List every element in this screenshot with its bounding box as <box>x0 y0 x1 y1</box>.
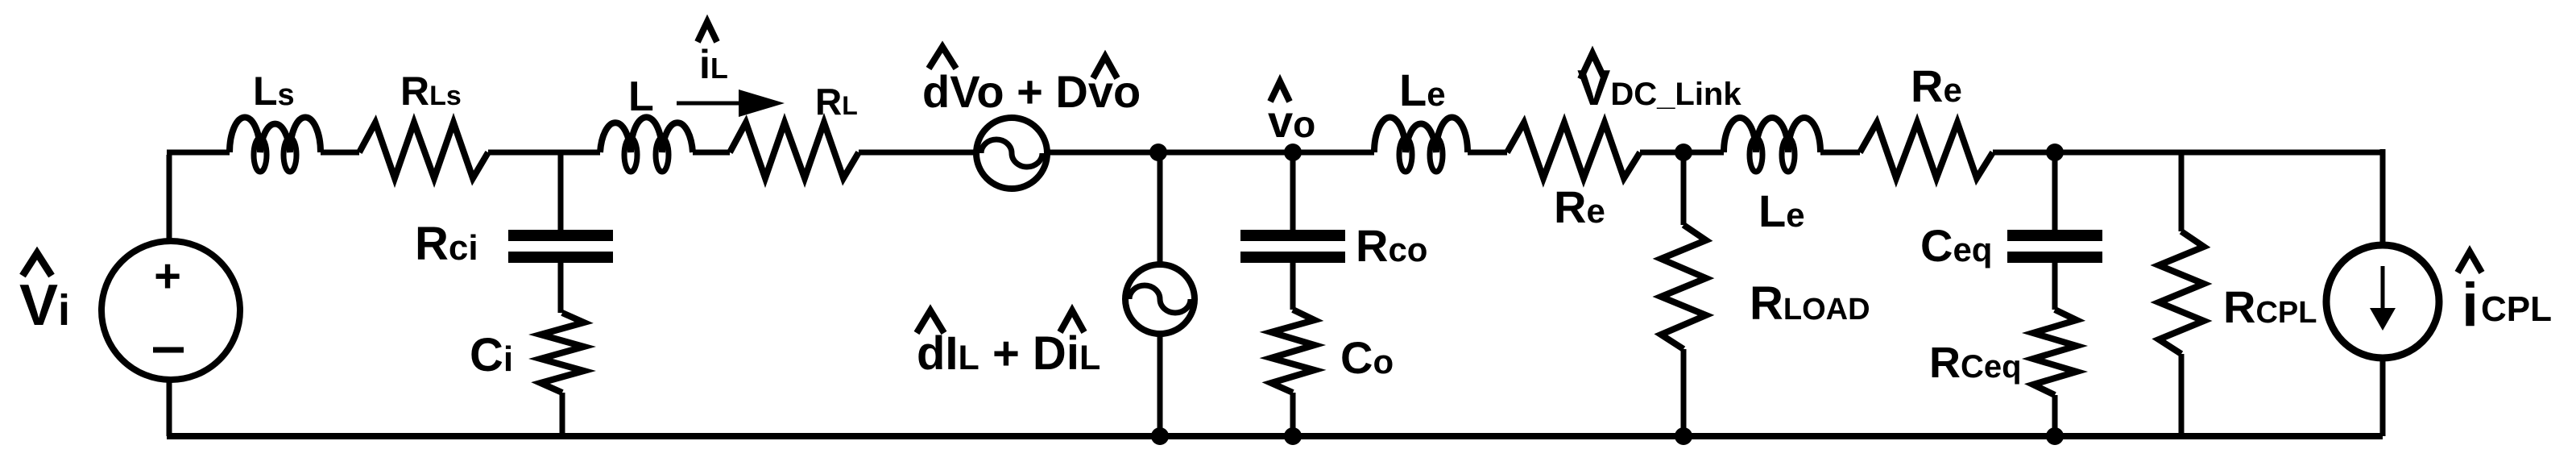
wire RLOAD branch upper <box>1681 152 1687 225</box>
wire top rail seg2 <box>321 150 359 156</box>
label vhat_o <box>1268 81 1315 147</box>
label Vhat_DC_Link <box>1577 53 1741 116</box>
inductor Ls <box>230 118 321 172</box>
wire top rail seg8 <box>1468 150 1507 156</box>
label Re second <box>1911 60 1962 111</box>
wire Rci to Ci <box>558 261 564 313</box>
capacitor Ceq <box>2007 235 2102 257</box>
wire top rail seg4 <box>693 150 730 156</box>
label Ci <box>470 329 513 381</box>
wire top rail seg9 <box>1640 150 1724 156</box>
label L <box>628 73 654 120</box>
label Co <box>1340 332 1394 383</box>
svg-text:CPL: CPL <box>2481 289 2552 329</box>
wire RCPL branch lower <box>2179 354 2185 436</box>
wire Rci branch upper <box>558 152 564 234</box>
label Re first <box>1554 181 1605 232</box>
wire top rail seg5 <box>859 150 977 156</box>
wire Ceq branch upper <box>2052 152 2058 234</box>
resistor Co symbol <box>1271 310 1315 393</box>
label RLOAD <box>1750 277 1870 330</box>
current source ihat_CPL <box>2326 245 2439 358</box>
resistor Re first <box>1507 123 1640 178</box>
wire Rceq branch lower <box>2052 395 2058 436</box>
label ihat_CPL <box>2458 252 2552 339</box>
wire RCPL branch upper <box>2179 152 2185 231</box>
wire Co branch lower <box>1290 393 1296 436</box>
label Rceq <box>1929 339 2022 387</box>
wire RLOAD branch lower <box>1681 349 1687 436</box>
wire Ceq to Rceq <box>2052 261 2058 310</box>
current arrow iL <box>677 89 785 117</box>
label Le second <box>1758 185 1805 236</box>
wire Vi top to rail <box>167 155 172 242</box>
resistor RLOAD <box>1661 225 1706 349</box>
node dot RLOAD bottom <box>1675 427 1692 445</box>
wire dIL branch lower <box>1158 333 1163 436</box>
capacitor Rco <box>1240 235 1345 257</box>
wire right rail down to iCPL <box>2380 149 2386 248</box>
wire bottom rail <box>167 433 2383 439</box>
label Rci <box>415 218 478 270</box>
resistor Rceq symbol <box>2033 310 2077 395</box>
label ihat_L <box>698 22 728 87</box>
resistor RLs <box>359 123 488 178</box>
wire Rco branch upper <box>1290 152 1296 234</box>
label RL <box>815 81 858 123</box>
svg-text:i: i <box>2462 271 2479 339</box>
label Ceq <box>1920 220 1992 271</box>
wire top rail seg11 <box>1993 150 2383 156</box>
svg-text:dIL + DiL: dIL + DiL <box>917 327 1100 380</box>
wire dIL branch upper <box>1158 152 1163 266</box>
ac current source dIL+DiL <box>1125 264 1195 334</box>
resistor Re second <box>1860 123 1993 178</box>
resistor RL <box>730 123 859 178</box>
label Le first <box>1399 64 1446 115</box>
inductor Le second <box>1724 118 1820 172</box>
wire Rco to Co <box>1290 261 1296 310</box>
label RLs <box>400 69 462 114</box>
inductor L <box>600 117 693 172</box>
capacitor Rci <box>508 235 613 257</box>
svg-text:L: L <box>628 73 654 120</box>
wire top rail seg3 <box>488 150 600 156</box>
label dhat_IL + Dihat_L <box>917 310 1100 380</box>
wire top rail seg10 <box>1820 150 1860 156</box>
label dhat_Vo + Dvhat_o <box>922 47 1141 117</box>
wire top rail seg1 <box>167 150 230 156</box>
wire Vi bottom to rail <box>167 379 172 436</box>
node dot dIL branch bottom <box>1151 427 1169 445</box>
ac voltage source dVo+Dvo <box>976 118 1047 189</box>
svg-text:dVo + Dvo: dVo + Dvo <box>922 66 1141 117</box>
resistor RCPL <box>2159 231 2204 354</box>
label RCPL <box>2223 281 2317 332</box>
node dot junction dIL branch top <box>1149 144 1167 161</box>
wire iCPL to bottom rail <box>2380 355 2386 436</box>
label Vhat_i <box>19 253 70 338</box>
node dot vhat_o <box>1284 144 1302 161</box>
label Ls <box>253 69 295 114</box>
node dot Co bottom <box>1284 427 1302 445</box>
wire top rail seg7 <box>1293 150 1374 156</box>
resistor Ci symbol <box>540 313 584 393</box>
node dot Ceq top <box>2046 144 2064 161</box>
wire top rail seg6 <box>1047 150 1293 156</box>
wire Ci branch lower <box>560 393 565 436</box>
svg-text:vo: vo <box>1268 96 1315 147</box>
svg-text:+: + <box>154 250 181 302</box>
node dot VDC_Link <box>1675 144 1692 161</box>
inductor Le first <box>1374 118 1468 172</box>
label Rco <box>1356 220 1427 271</box>
voltage source Vhat_i <box>101 241 240 380</box>
node dot Rceq bottom <box>2046 427 2064 445</box>
